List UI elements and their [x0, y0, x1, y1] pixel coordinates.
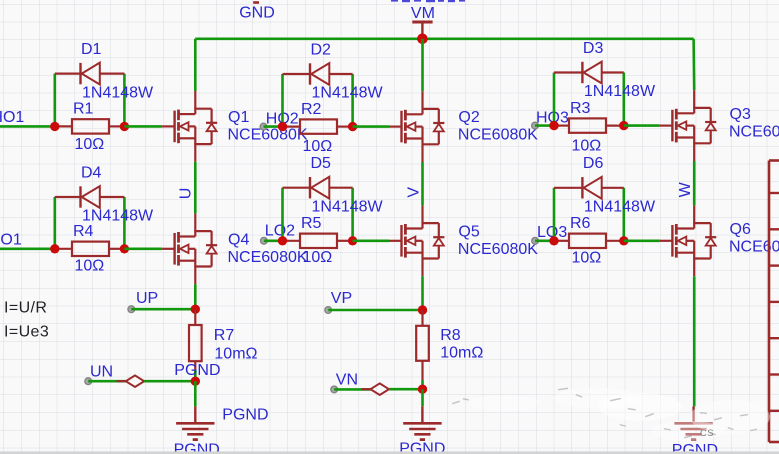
junction R2 right	[348, 122, 357, 131]
label D1	[81, 41, 102, 58]
resistor R6	[554, 234, 624, 248]
no-ERC diamond (VN)	[362, 383, 398, 395]
ground PGND (V sense)	[403, 406, 441, 439]
svg-text:UN: UN	[90, 363, 113, 380]
resistor R7	[189, 309, 202, 370]
label D5	[311, 155, 332, 172]
svg-text:Q4: Q4	[228, 231, 249, 248]
svg-text:CS: CS	[700, 428, 714, 439]
svg-text:10Ω: 10Ω	[75, 258, 105, 275]
svg-text:VN: VN	[336, 371, 358, 388]
label PGND (U bottom)	[174, 442, 220, 454]
wire VN left segment	[334, 388, 370, 391]
svg-text:NCE60: NCE60	[729, 123, 779, 140]
value NCE6080K (Q2)	[458, 127, 538, 144]
value NCE60 (Q6)	[729, 239, 779, 256]
svg-text:R4: R4	[73, 223, 94, 240]
svg-text:NCE60: NCE60	[729, 239, 779, 256]
port VN	[331, 371, 358, 392]
svg-text:10Ω: 10Ω	[572, 138, 602, 155]
svg-text:10mΩ: 10mΩ	[214, 346, 257, 363]
net label HO1	[0, 109, 24, 126]
svg-text:HO1: HO1	[0, 109, 24, 126]
svg-text:D3: D3	[583, 40, 604, 57]
value 10Ω (R4)	[75, 258, 105, 275]
net label W (rotated)	[677, 181, 694, 197]
svg-text:GND: GND	[239, 5, 275, 22]
label R2	[301, 101, 322, 118]
wire R8 to VN node	[421, 380, 424, 389]
power port GND (cropped symbol)	[239, 1, 275, 22]
net label U (rotated)	[178, 188, 195, 200]
svg-text:NCE6080K: NCE6080K	[228, 126, 308, 143]
svg-text:D5: D5	[311, 155, 332, 172]
value NCE6080K (Q1)	[228, 126, 308, 143]
wire R3 to Q3 gate	[624, 124, 660, 127]
label PGND (right of U ground)	[222, 407, 268, 424]
diode D6	[554, 177, 624, 199]
label R6	[570, 215, 591, 232]
diode D2	[283, 63, 353, 85]
wire node U (Q1 source to Q4 drain)	[194, 162, 197, 214]
junction R3 right	[619, 121, 628, 130]
wire Q1 drain to VM rail	[194, 39, 197, 91]
junction R4 left	[50, 244, 59, 253]
svg-text:Q1: Q1	[228, 109, 249, 126]
svg-text:NCE6080K: NCE6080K	[228, 249, 308, 266]
value 1N4148W (D2)	[312, 85, 384, 102]
label D6	[583, 155, 604, 172]
resistor R2	[283, 119, 353, 133]
port LO3	[532, 224, 568, 244]
svg-text:10Ω: 10Ω	[75, 136, 105, 153]
svg-text:R2: R2	[301, 101, 322, 118]
wire VP to node	[328, 309, 422, 312]
wire R2 to Q2 gate	[353, 125, 389, 128]
wire D4-row input from edge	[0, 248, 55, 251]
svg-text:D1: D1	[81, 41, 102, 58]
svg-text:10Ω: 10Ω	[303, 249, 333, 266]
window edge strip	[0, 451, 779, 454]
wire LO2 to junction	[264, 240, 283, 243]
annotation I=Ue3	[4, 324, 49, 341]
diode D4	[55, 186, 125, 208]
value NCE60 (Q3)	[729, 123, 779, 140]
label R5	[301, 215, 322, 232]
svg-text:R1: R1	[73, 101, 94, 118]
watermark remnants (smudge)	[452, 388, 770, 441]
svg-text:U: U	[178, 188, 195, 200]
value 1N4148W (D3)	[584, 83, 656, 100]
wire D5 loop right	[351, 188, 354, 241]
value 10mΩ (R7)	[214, 346, 257, 363]
wire R4 to Q4 gate	[124, 248, 162, 251]
resistor R3	[554, 118, 624, 132]
label R1	[73, 101, 94, 118]
label D2	[311, 41, 332, 58]
wire D1-row input from edge	[0, 125, 55, 128]
label Q6	[730, 221, 751, 238]
svg-text:I=U/R: I=U/R	[4, 300, 47, 317]
wire D2 loop left	[281, 74, 284, 127]
svg-text:10Ω: 10Ω	[572, 250, 602, 267]
diode D1	[55, 63, 125, 85]
resistor R1	[55, 119, 125, 133]
svg-text:1N4148W: 1N4148W	[82, 84, 154, 101]
resistor R5	[283, 234, 353, 248]
svg-text:D6: D6	[583, 155, 604, 172]
svg-text:Q2: Q2	[458, 109, 479, 126]
port HO3	[532, 110, 569, 129]
wire Q5 source down to VP node	[421, 276, 424, 310]
label R4	[73, 223, 94, 240]
label Q4	[228, 231, 249, 248]
svg-text:VP: VP	[331, 290, 352, 307]
wire D1 loop left	[53, 74, 56, 127]
label Q3	[730, 106, 751, 123]
ground PGND (U sense)	[176, 406, 214, 439]
net label V (rotated)	[405, 187, 422, 198]
wire HO2 to junction	[264, 125, 283, 128]
wire D5 loop left	[281, 188, 284, 241]
diode D3	[554, 62, 624, 84]
wire D1 loop right	[123, 74, 126, 127]
junction R6 left	[549, 236, 558, 245]
value 10Ω (R3)	[572, 138, 602, 155]
value 10mΩ (R8)	[440, 345, 483, 362]
svg-text:Q6: Q6	[730, 221, 751, 238]
label R3	[570, 100, 591, 117]
label R7	[214, 327, 235, 344]
svg-text:UP: UP	[136, 290, 158, 307]
junction R3 left	[549, 121, 558, 130]
junction R5 right	[348, 236, 357, 245]
value 1N4148W (D6)	[584, 199, 656, 216]
label R8	[440, 327, 461, 344]
transistor Q6	[660, 205, 716, 276]
svg-text:R5: R5	[301, 215, 322, 232]
annotation I=U/R	[4, 300, 47, 317]
wire D4 loop left	[53, 197, 56, 249]
wire D3 loop right	[622, 73, 625, 126]
value 1N4148W (D1)	[82, 84, 154, 101]
transistor Q5	[389, 205, 444, 276]
junction R1 right	[120, 122, 129, 131]
wire D4 loop right	[123, 197, 126, 249]
svg-text:Q5: Q5	[458, 223, 479, 240]
value 10Ω (R6)	[572, 250, 602, 267]
wire node V (Q2 source to Q5 drain)	[421, 162, 424, 205]
junction R5 left	[278, 236, 287, 245]
wire D6 loop right	[622, 188, 625, 241]
wire R6 to Q6 gate	[624, 240, 660, 243]
wire R7 to UN node	[194, 370, 197, 381]
svg-text:1N4148W: 1N4148W	[312, 198, 384, 215]
svg-text:1N4148W: 1N4148W	[312, 85, 384, 102]
value 1N4148W (D5)	[312, 198, 384, 215]
svg-text:PGND: PGND	[174, 362, 220, 379]
svg-text:Q3: Q3	[730, 106, 751, 123]
wire VN right segment	[389, 388, 423, 391]
port HO2	[260, 110, 299, 130]
svg-text:LO1: LO1	[0, 231, 22, 248]
net label PGND (UN node)	[174, 362, 220, 379]
wire UP to node	[131, 308, 195, 311]
wire R1 to Q1 gate	[124, 125, 162, 128]
wire D2 loop right	[351, 74, 354, 127]
wire LO3 to junction	[535, 240, 554, 243]
junction R4 right	[120, 244, 129, 253]
port LO2	[261, 223, 296, 245]
wire node W (Q3 source to Q6 drain)	[693, 161, 696, 205]
label Q2	[458, 109, 479, 126]
svg-text:D2: D2	[311, 41, 332, 58]
svg-text:1N4148W: 1N4148W	[584, 83, 656, 100]
connector J1 (cropped at right edge)	[769, 161, 779, 443]
transistor Q1	[162, 91, 217, 162]
junction R6 right	[619, 236, 628, 245]
svg-text:I=Ue3: I=Ue3	[4, 324, 49, 341]
port UP	[128, 290, 158, 312]
wire VM top rail	[195, 37, 693, 40]
label D4	[81, 164, 102, 181]
wire UN right segment	[144, 380, 195, 383]
ground PGND (W phase)	[674, 406, 712, 439]
wire Q4 source down to UP node	[194, 284, 197, 309]
resistor R8	[416, 310, 429, 380]
junction UP node	[191, 305, 200, 314]
value NCE6080K (Q4)	[228, 249, 308, 266]
svg-text:VM: VM	[411, 5, 435, 22]
svg-text:1N4148W: 1N4148W	[584, 199, 656, 216]
label Q1	[228, 109, 249, 126]
wire UN left segment	[88, 380, 126, 383]
svg-text:V: V	[405, 187, 422, 198]
value 10Ω (R1)	[75, 136, 105, 153]
label D3	[583, 40, 604, 57]
svg-text:10mΩ: 10mΩ	[440, 345, 483, 362]
value 10Ω (R5)	[303, 249, 333, 266]
wire Q3 drain to VM rail	[692, 39, 695, 90]
no-ERC diamond (UN)	[117, 375, 153, 387]
svg-text:D4: D4	[81, 164, 102, 181]
transistor Q3	[660, 90, 716, 161]
diode D5	[283, 177, 353, 199]
svg-text:R7: R7	[214, 327, 235, 344]
value 1N4148W (D4)	[82, 208, 154, 225]
wire HO3 to junction	[535, 124, 554, 127]
svg-text:PGND: PGND	[222, 407, 268, 424]
junction UN node	[191, 377, 200, 386]
wire Q6 source down to PGND	[693, 276, 696, 406]
resistor R4	[55, 242, 125, 256]
svg-text:R8: R8	[440, 327, 461, 344]
value NCE6080K (Q5)	[458, 241, 538, 258]
svg-text:R6: R6	[570, 215, 591, 232]
svg-text:W: W	[677, 181, 694, 197]
wire VN node to ground	[421, 389, 424, 406]
svg-text:10Ω: 10Ω	[303, 138, 333, 155]
power port VM	[411, 5, 435, 39]
port UN	[85, 363, 113, 384]
label Q5	[458, 223, 479, 240]
net label LO1	[0, 231, 22, 248]
svg-text:R3: R3	[570, 100, 591, 117]
label PGND (W bottom)	[672, 442, 718, 454]
label PGND (V bottom)	[399, 441, 445, 454]
junction R2 left	[278, 122, 287, 131]
wire UN node to ground	[194, 381, 197, 406]
transistor Q4	[162, 213, 217, 284]
value 10Ω (R2)	[303, 138, 333, 155]
wire D3 loop left	[553, 73, 556, 126]
port VP	[325, 290, 352, 313]
wire R5 to Q5 gate	[353, 240, 389, 243]
wire D6 loop left	[553, 188, 556, 241]
junction VP node	[418, 305, 427, 314]
junction VN node	[418, 385, 427, 394]
wire Q2 drain to VM rail	[421, 39, 424, 91]
net label cropped at top edge	[391, 0, 465, 2]
transistor Q2	[389, 91, 444, 162]
junction at VM rail	[417, 34, 428, 45]
junction R1 left	[50, 122, 59, 131]
svg-text:NCE6080K: NCE6080K	[458, 127, 538, 144]
svg-text:NCE6080K: NCE6080K	[458, 241, 538, 258]
